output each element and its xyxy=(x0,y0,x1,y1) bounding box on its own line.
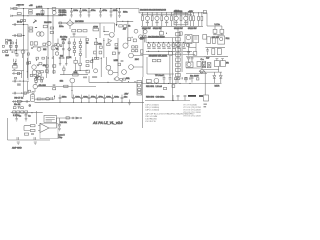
label q28b xyxy=(83,76,97,78)
capacitor C20 xyxy=(185,77,188,82)
resistor RE4 xyxy=(171,13,173,26)
svg-text:+35V 0V: +35V 0V xyxy=(16,5,25,7)
vbe multiplier Q9 xyxy=(193,35,199,42)
capacitor C17b xyxy=(52,57,54,58)
capacitor C10 xyxy=(73,34,76,38)
capacitor C11 xyxy=(15,42,17,43)
capacitor C42 xyxy=(17,137,18,140)
svg-text:+56V: +56V xyxy=(188,11,193,13)
transistor Q8 driver upper xyxy=(185,35,192,44)
svg-text:(-): (-) xyxy=(29,105,31,107)
resistor R46b xyxy=(94,51,97,54)
svg-text:2SA1943 MJL21194: 2SA1943 MJL21194 xyxy=(149,55,168,58)
op-amp U1 xyxy=(38,124,49,133)
capacitor C9 xyxy=(14,34,15,37)
wire +V rail right xyxy=(139,9,207,13)
resistor RE12 xyxy=(198,13,200,26)
node d365 xyxy=(36,60,37,61)
node out terminal xyxy=(200,71,205,74)
resistor R23b xyxy=(16,54,18,56)
node d371 xyxy=(37,75,38,76)
node n334 xyxy=(33,46,34,47)
resistor R15 xyxy=(6,42,8,44)
resistor R35 xyxy=(120,79,123,81)
capacitor C22 xyxy=(43,98,44,101)
transistor Q11 xyxy=(155,13,159,26)
wire v1039 xyxy=(103,38,105,58)
wire row99 xyxy=(34,98,54,100)
node n1285 xyxy=(128,81,129,82)
wire v89b xyxy=(88,76,90,82)
resistor R44b xyxy=(107,44,110,46)
wire mid h37 xyxy=(70,36,87,38)
resistor R5c xyxy=(23,20,25,22)
node row50 dots xyxy=(10,49,23,50)
resistor R40b xyxy=(62,42,64,44)
wire row931 xyxy=(12,92,29,94)
wire servo top xyxy=(11,112,43,114)
wire v1699 xyxy=(169,56,171,76)
resistor R43 xyxy=(207,37,210,44)
wire v1012 xyxy=(100,57,102,77)
diode D10 xyxy=(213,72,216,83)
connector J2a xyxy=(2,45,4,47)
svg-text:1k2: 1k2 xyxy=(43,49,47,51)
svg-text:C40 100n: C40 100n xyxy=(156,97,166,99)
svg-text:C8 100n: C8 100n xyxy=(59,15,68,17)
wire servo in v xyxy=(36,111,38,124)
svg-text:100u: 100u xyxy=(82,10,87,12)
capacitor C19 xyxy=(169,75,172,84)
capacitor C15b xyxy=(13,73,15,74)
wire v632 xyxy=(62,38,64,58)
resistor R82 xyxy=(185,78,188,80)
resistor R45b xyxy=(115,44,118,47)
wire v118 xyxy=(117,38,119,76)
box bottom right xyxy=(204,95,209,101)
node n2081 xyxy=(19,81,20,82)
svg-text:C3F (C 1/4000): C3F (C 1/4000) xyxy=(145,110,159,112)
wire h705 xyxy=(75,70,88,72)
node rail dots upper xyxy=(142,12,191,13)
wire q23 out xyxy=(113,72,118,74)
svg-text:#T8 #3# (T#) #203#: #T8 #3# (T#) #203# xyxy=(183,116,202,118)
diode D1 xyxy=(33,20,37,24)
capacitor C28 xyxy=(103,95,106,103)
wire servo bottom xyxy=(8,139,51,141)
resistor R48 xyxy=(30,125,35,127)
transistor Q26c xyxy=(122,70,127,75)
capacitor C14b xyxy=(14,70,16,71)
transistor Q34 xyxy=(143,30,147,34)
wire row737 xyxy=(12,73,22,75)
svg-text:2SC5200: 2SC5200 xyxy=(156,37,165,39)
wire spk bottom xyxy=(203,70,222,73)
wire driver down a xyxy=(188,44,190,52)
transistor Q7a xyxy=(32,65,36,69)
capacitor C15b xyxy=(191,58,194,62)
svg-text:100n: 100n xyxy=(114,96,119,98)
wire vertical x48 xyxy=(47,9,49,75)
svg-text:47k 680: 47k 680 xyxy=(38,85,46,87)
ground stub GA xyxy=(59,57,61,65)
resistor R50c xyxy=(86,60,89,62)
capacitor C34 xyxy=(15,113,18,119)
capacitor C17 xyxy=(14,92,15,95)
label row811 xyxy=(17,83,21,85)
resistor R84 xyxy=(164,87,167,89)
wire v104 xyxy=(103,26,105,32)
transistor Q10 xyxy=(145,13,149,26)
wire bank links xyxy=(143,29,146,43)
resistor R19 xyxy=(15,45,17,47)
transistor flag Q8b xyxy=(108,39,111,43)
ground G5 xyxy=(25,119,28,121)
label servo box title xyxy=(44,115,56,122)
resistor R52c xyxy=(86,70,89,73)
resistor R51 xyxy=(66,117,69,119)
wire servo out xyxy=(49,118,80,128)
resistor RE6 xyxy=(152,44,155,46)
resistor R50 xyxy=(24,133,28,135)
node d104 xyxy=(10,43,11,44)
wire v544 xyxy=(53,96,55,100)
svg-text:100n: 100n xyxy=(113,10,118,12)
capacitor C39 xyxy=(184,95,187,100)
transistor Q5 xyxy=(21,50,25,58)
resistor R20 xyxy=(6,51,8,53)
wire h469 xyxy=(33,46,48,48)
node n21931 xyxy=(21,93,22,94)
resistor R38b xyxy=(53,71,55,73)
svg-text:R51 0R1: R51 0R1 xyxy=(146,86,155,88)
label under Q14 xyxy=(184,22,187,23)
node negdots xyxy=(59,102,122,103)
capacitor C38 xyxy=(177,95,180,100)
wire +V rail left xyxy=(12,8,139,10)
wire v173 xyxy=(172,95,174,101)
capacitor C40b xyxy=(31,48,33,49)
svg-text:MJE: MJE xyxy=(114,60,119,62)
svg-text:TP1 0mV: TP1 0mV xyxy=(155,75,164,77)
svg-text:+35: +35 xyxy=(29,5,33,7)
resistor R39 xyxy=(46,98,49,100)
wire driver h xyxy=(189,47,197,49)
label fbr xyxy=(53,84,56,86)
wire h31 xyxy=(104,31,109,33)
svg-text:1u: 1u xyxy=(19,115,22,117)
svg-text:10k: 10k xyxy=(8,40,12,42)
resistor R31b xyxy=(40,71,43,73)
svg-text:B1: B1 xyxy=(56,49,59,51)
resistor chain RC1 xyxy=(73,39,75,57)
node servo out terminal xyxy=(80,117,81,118)
svg-text:RL1: RL1 xyxy=(226,38,231,40)
node rail dots right xyxy=(193,12,202,13)
capacitor C8 xyxy=(14,23,15,26)
wire q27 down xyxy=(34,89,36,92)
resistor RE2 xyxy=(151,13,153,26)
capacitor C15 xyxy=(187,58,190,62)
resistor R37 xyxy=(146,79,151,82)
transistor Q21 xyxy=(94,69,98,73)
wire base bus lower bank xyxy=(146,41,192,43)
ground Gv xyxy=(118,52,121,54)
diode diamond D5b xyxy=(68,47,71,51)
svg-text:1k: 1k xyxy=(86,43,89,45)
svg-text:R50 3R3: R50 3R3 xyxy=(146,97,155,99)
svg-text:#T6 #3# (T#) #203#: #T6 #3# (T#) #203# xyxy=(183,112,202,114)
resistor R34c xyxy=(41,80,43,82)
ground G7 xyxy=(34,142,37,144)
wire emitter bus upper xyxy=(141,25,203,27)
transistor Q3 cascode diamond xyxy=(66,19,73,29)
resistor R48d xyxy=(13,107,16,109)
resistor R32 xyxy=(41,77,43,79)
wire v163 xyxy=(15,39,17,50)
capacitor C30 xyxy=(187,52,189,56)
wire output right vertical xyxy=(206,13,208,26)
resistor ladder chain xyxy=(176,29,181,83)
label under Q10 xyxy=(146,22,149,23)
svg-text:C3# 2F/7.3#: C3# 2F/7.3# xyxy=(145,121,157,123)
node outline dots xyxy=(147,83,190,84)
svg-text:100u: 100u xyxy=(73,10,78,12)
capacitor C12 xyxy=(12,51,14,52)
resistor R31 xyxy=(34,78,36,80)
resistor R76 xyxy=(91,61,93,63)
svg-text:100n: 100n xyxy=(59,26,64,28)
wire v107 xyxy=(10,41,12,50)
resistor RE8 xyxy=(172,44,175,46)
node d156 xyxy=(15,61,16,62)
resistor R27b2 xyxy=(135,46,138,48)
svg-text:56k: 56k xyxy=(126,78,130,80)
svg-text:10k: 10k xyxy=(60,81,64,83)
wire v143 long xyxy=(142,38,144,77)
wire h73 xyxy=(186,73,207,75)
node n173 xyxy=(172,100,173,101)
diode diamond D4 xyxy=(199,69,204,73)
wire v213 xyxy=(20,71,22,78)
node outr dots xyxy=(151,83,176,84)
svg-text:0R22 5W: 0R22 5W xyxy=(174,28,184,30)
resistor R14 xyxy=(5,39,7,41)
resistor R34b xyxy=(38,74,41,77)
diode D6b xyxy=(95,38,97,40)
svg-text:NFB 22k: NFB 22k xyxy=(36,14,45,16)
wire out long h823 xyxy=(89,81,143,83)
resistor R12b xyxy=(83,30,87,32)
wire fb out xyxy=(37,85,96,87)
wire v176 xyxy=(175,79,177,84)
svg-text:100u: 100u xyxy=(75,96,80,98)
resistor R22b xyxy=(27,53,29,55)
resistor R86 xyxy=(197,62,201,67)
wire out long v1425 xyxy=(142,77,144,128)
wire v86 xyxy=(85,38,87,58)
svg-text:4k7: 4k7 xyxy=(123,29,127,31)
capacitor C22b xyxy=(51,97,52,100)
label ladder vertical xyxy=(181,44,182,72)
wire out line right xyxy=(142,82,213,84)
resistor R12 xyxy=(77,30,81,32)
node input junction xyxy=(23,24,24,25)
transistor Q26 xyxy=(186,62,193,67)
resistor R39b xyxy=(60,45,62,47)
node lower bus dots xyxy=(148,42,184,43)
capacitor C37 xyxy=(58,118,61,128)
resistor R33b xyxy=(34,74,37,76)
resistor R32b xyxy=(30,74,33,76)
capacitor C2 xyxy=(79,9,82,18)
ground G8 xyxy=(58,129,61,131)
capacitor C33b xyxy=(221,59,224,61)
wire v536 xyxy=(53,56,55,74)
svg-text:100p: 100p xyxy=(62,39,67,41)
resistor R27 xyxy=(132,46,135,48)
svg-text:1k: 1k xyxy=(128,25,131,27)
label under Q13 xyxy=(175,22,178,23)
resistor R11 xyxy=(72,30,76,32)
resistor R38 xyxy=(37,98,41,100)
ground G6 xyxy=(17,142,20,144)
resistor R42 xyxy=(220,26,224,35)
svg-text:470u: 470u xyxy=(102,10,107,12)
svg-text:100n: 100n xyxy=(106,96,111,98)
relay contact K1a xyxy=(202,63,206,68)
capacitor C30b xyxy=(26,100,27,102)
resistor R48b xyxy=(217,49,221,55)
connector rail end xyxy=(203,10,206,13)
transistor Q13 xyxy=(174,13,178,26)
transistor Q27b xyxy=(38,77,41,80)
resistor R6 xyxy=(29,27,33,29)
capacitor C43 xyxy=(34,137,35,140)
capacitor C24 xyxy=(72,95,75,103)
transistor Q14 xyxy=(184,13,188,26)
resistor R51c xyxy=(86,65,89,67)
label lower row1 xyxy=(147,48,185,49)
svg-text:MUR: MUR xyxy=(215,86,220,88)
resistor R35b xyxy=(45,65,48,67)
wire v691 xyxy=(68,38,70,58)
node nif1 xyxy=(21,101,22,102)
resistor R26b xyxy=(36,57,39,59)
wire row50 xyxy=(5,49,28,51)
wire out row3 xyxy=(204,56,228,58)
svg-text:470R: 470R xyxy=(93,27,98,29)
wire second rail xyxy=(12,15,63,17)
wire spk v xyxy=(218,66,220,72)
resistor R49c xyxy=(73,74,79,76)
capacitor C31 xyxy=(206,48,209,55)
svg-text:AMP GND: AMP GND xyxy=(12,147,22,150)
node rail dots left xyxy=(27,8,120,16)
capacitor C210 xyxy=(121,95,124,103)
svg-text:10u 1k: 10u 1k xyxy=(14,104,21,106)
wire -V bank rail xyxy=(140,53,195,55)
wire input row3 xyxy=(12,35,25,37)
node n122b xyxy=(121,81,122,82)
resistor R49 xyxy=(30,129,35,131)
wire L1 top xyxy=(207,25,222,27)
relay box RL2 xyxy=(137,81,142,95)
resistor R9 xyxy=(50,27,53,29)
resistor R47 xyxy=(17,100,21,102)
wire left column right edge xyxy=(27,25,29,81)
resistor R43b xyxy=(94,42,97,45)
transistor Q41 xyxy=(47,41,51,45)
wire input row2 xyxy=(12,24,28,26)
ground G2 xyxy=(128,100,131,105)
resistor R30 xyxy=(157,59,161,61)
svg-text:8R: 8R xyxy=(226,63,229,65)
capacitor C27 xyxy=(95,95,98,103)
svg-text:LTsp: LTsp xyxy=(58,137,63,139)
resistor R48c xyxy=(79,57,82,71)
wire servo left v xyxy=(7,118,9,140)
capacitor C18 xyxy=(163,75,166,84)
resistor R77 xyxy=(63,66,65,75)
label md1 xyxy=(59,57,69,59)
transistor Q4 xyxy=(104,32,114,37)
resistor R29 xyxy=(152,59,156,61)
resistor R42b xyxy=(86,39,89,41)
wire vas right2 xyxy=(100,23,115,32)
transistor Q25 xyxy=(129,53,134,58)
diode D11 xyxy=(219,72,222,83)
resistor R47c xyxy=(99,51,102,54)
resistor R25 xyxy=(27,62,29,64)
svg-text:2SC: 2SC xyxy=(135,59,140,61)
wire vertical x43 xyxy=(42,9,44,16)
wire v273 xyxy=(26,58,28,78)
svg-text:33k: 33k xyxy=(98,43,102,45)
node n544 xyxy=(54,96,55,97)
transistor Q7b xyxy=(32,70,36,74)
resistor R4b xyxy=(52,8,56,11)
svg-text:(+35V): (+35V) xyxy=(36,7,42,9)
inductor L1 xyxy=(213,26,217,35)
resistor R8 xyxy=(43,25,47,28)
diode diamond D4b xyxy=(56,39,60,52)
resistor R18 xyxy=(13,65,17,68)
capacitor C16 xyxy=(14,80,15,83)
svg-text:-56V: -56V xyxy=(124,94,129,96)
resistor R65 xyxy=(159,32,163,36)
relay contact K1b xyxy=(207,63,211,68)
transistor Q1b xyxy=(52,11,56,15)
wire drv links xyxy=(133,56,143,68)
capacitor C18b xyxy=(62,49,65,50)
resistor R85 xyxy=(172,85,175,88)
label bottom right xyxy=(204,104,207,108)
capacitor C14 xyxy=(121,60,124,61)
svg-text:0R22 5W: 0R22 5W xyxy=(142,28,152,30)
node n36 xyxy=(35,82,36,83)
capacitor C6 xyxy=(110,9,113,18)
wire if row xyxy=(12,100,30,102)
resistor R28c xyxy=(132,50,135,52)
resistor R81 xyxy=(177,78,179,80)
resistor R72 xyxy=(43,43,46,45)
resistor chain RC2 xyxy=(79,39,81,58)
box out filter a xyxy=(214,61,219,67)
wire vas right xyxy=(87,23,100,38)
capacitor C7 xyxy=(118,9,121,18)
capacitor C4 xyxy=(88,9,91,18)
